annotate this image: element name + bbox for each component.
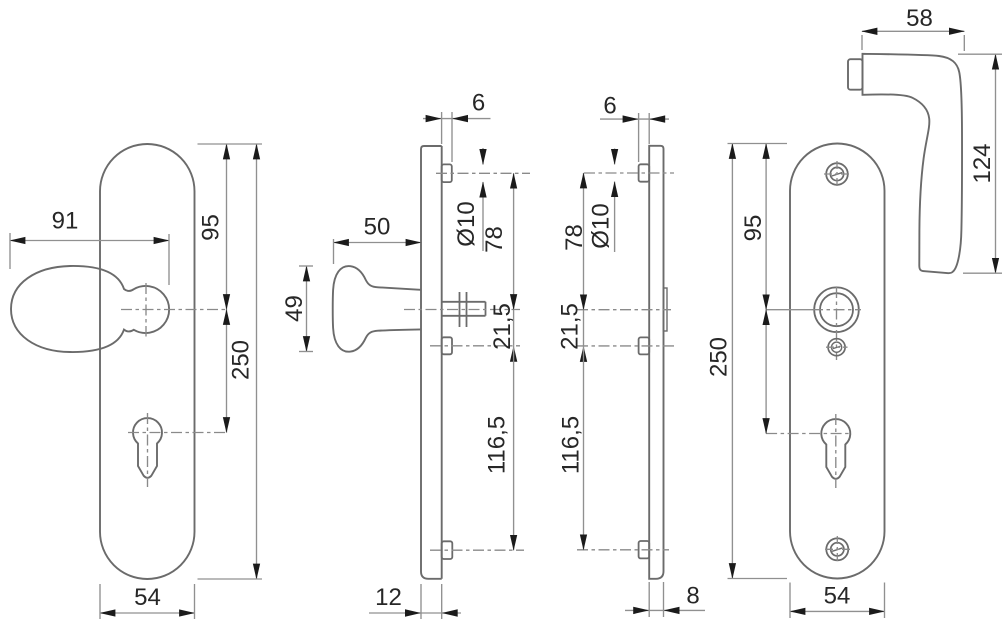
dimension 78 line	[513, 173, 515, 309]
spindle shaft	[442, 302, 486, 316]
keyhole horizontal centerline	[128, 432, 227, 434]
middle screw centerline	[430, 345, 520, 347]
dimension 12 arrow left	[405, 609, 421, 616]
bottom screw outer	[826, 538, 848, 560]
svg-text:21,5: 21,5	[557, 303, 584, 350]
svg-text:58: 58	[906, 5, 933, 32]
inner plate side profile (8mm)	[649, 146, 663, 579]
svg-text:12: 12	[375, 584, 402, 611]
dimension 21,5 arrow (shared with 116,5)	[580, 346, 587, 362]
plate outline (front view, lever side)	[790, 144, 885, 579]
dimension 49 extension line bottom	[299, 351, 313, 353]
dimension 91 extension line left	[9, 233, 11, 269]
svg-text:6: 6	[472, 90, 485, 117]
hub centerline extension to dimension	[766, 309, 812, 311]
dimension 6 extension line right	[648, 113, 650, 144]
top screw boss	[442, 164, 452, 182]
bottom screw horizontal centerline	[825, 548, 850, 550]
bottom extension line	[198, 578, 263, 580]
dimension 54 extension line right	[884, 583, 886, 619]
keyhole horizontal centerline	[766, 433, 851, 435]
dimension 124 extension line bottom	[963, 272, 1002, 274]
svg-text:91: 91	[52, 208, 79, 235]
svg-text:Ø10: Ø10	[588, 203, 615, 248]
svg-text:250: 250	[228, 340, 255, 380]
dimension 54 extension line left	[789, 583, 791, 619]
dimension 58 extension line right	[963, 35, 965, 51]
small screw inner	[832, 342, 842, 352]
diameter 10 upper arrow	[614, 149, 616, 165]
top extension line	[728, 143, 788, 145]
dimension 8 line	[625, 609, 705, 611]
dimension 8 arrow left	[633, 607, 649, 614]
bottom screw boss	[442, 541, 453, 559]
bottom extension line	[728, 578, 788, 580]
dimension 116,5 line	[513, 346, 515, 550]
lever handle outline	[863, 54, 963, 273]
keyhole (euro profile cylinder)	[133, 418, 162, 478]
bottom screw centerline	[430, 549, 524, 551]
top screw head inner	[830, 167, 843, 180]
svg-text:116,5: 116,5	[558, 416, 585, 474]
spindle guide bump	[664, 288, 668, 331]
middle screw boss	[442, 337, 452, 354]
handle hub outer circle	[814, 287, 859, 332]
top screw horizontal centerline	[824, 173, 850, 175]
top screw vertical centerline	[836, 161, 838, 187]
top screw slot	[832, 173, 842, 176]
spindle nut plate 2	[466, 292, 468, 327]
dimension 250 line	[256, 144, 258, 579]
middle screw boss	[639, 337, 650, 354]
dimension 12 arrow right	[442, 609, 458, 616]
dimension 6 line	[600, 118, 669, 120]
dimension 54 line	[100, 612, 195, 614]
svg-text:50: 50	[364, 214, 391, 241]
bottom screw vertical centerline	[836, 536, 838, 563]
svg-text:95: 95	[198, 214, 225, 241]
knob side profile (mushroom)	[333, 266, 421, 352]
keyhole vertical centerline	[147, 413, 149, 487]
dimension 58 line	[862, 30, 964, 32]
diameter 10 lower arrow and shelf	[482, 182, 484, 251]
dimension 78 line	[583, 173, 585, 310]
svg-text:54: 54	[824, 583, 851, 610]
dimension 50 line	[334, 242, 422, 244]
dimension 54 extension line left	[99, 584, 101, 619]
dimension 6 arrow right	[649, 115, 665, 122]
top screw centerline	[584, 172, 674, 174]
svg-text:49: 49	[281, 295, 308, 322]
dimension 12 extension line right	[441, 584, 443, 619]
dimension 12 line	[369, 612, 461, 614]
svg-text:21,5: 21,5	[489, 303, 516, 350]
dimension 6 line (screw protrusion)	[423, 118, 491, 120]
top screw head outer	[826, 163, 848, 185]
svg-text:Ø10: Ø10	[453, 201, 480, 246]
dimension 21,5 line	[583, 310, 585, 346]
svg-text:116,5: 116,5	[484, 416, 511, 474]
plate side profile (12mm cap)	[421, 146, 442, 579]
dimension 8 arrow right	[664, 607, 680, 614]
svg-text:54: 54	[134, 584, 161, 611]
svg-text:6: 6	[603, 93, 616, 120]
spindle centerline	[404, 309, 520, 311]
dimension 6 extension line right	[451, 112, 453, 162]
dimension 12 extension line left	[420, 584, 422, 619]
plate outline (front view, knob side)	[100, 144, 195, 579]
chain dimension hub-to-keyhole line	[765, 310, 767, 434]
dimension 49 line	[306, 266, 308, 352]
bottom screw boss	[639, 541, 650, 558]
small screw slot	[833, 346, 841, 348]
handle spindle stub	[848, 59, 863, 89]
chain dimension knob-to-keyhole line	[226, 310, 228, 433]
dimension 21,5 arrow (shared with 116,5)	[510, 346, 517, 362]
dimension 95 line	[226, 144, 228, 310]
dimension 124 line	[995, 54, 997, 273]
svg-text:124: 124	[969, 143, 996, 183]
dimension 49 extension line top	[299, 265, 313, 267]
dimension 8 extension line left	[648, 582, 650, 617]
dimension 6 extension line left	[638, 113, 640, 162]
dimension 58 extension line left	[861, 35, 863, 50]
dimension 250 line	[731, 144, 733, 579]
svg-text:8: 8	[686, 583, 699, 610]
spindle centerline	[577, 309, 671, 311]
knob vertical centerline	[145, 283, 147, 337]
keyhole (euro profile cylinder)	[821, 419, 850, 479]
svg-text:95: 95	[740, 215, 767, 242]
keyhole vertical centerline	[835, 414, 837, 488]
hub horizontal centerline	[812, 309, 861, 311]
dimension 91 line	[10, 240, 169, 242]
top screw centerline	[436, 172, 530, 174]
svg-text:78: 78	[561, 224, 588, 251]
top screw boss	[639, 164, 650, 181]
bottom screw centerline	[577, 549, 669, 551]
bottom screw inner	[831, 543, 844, 556]
dimension 54 extension line right	[194, 584, 196, 619]
knob (egg shape with neck and round boss)	[11, 266, 169, 352]
dimension 91 extension line right	[168, 234, 170, 285]
dimension 116,5 line	[583, 346, 585, 550]
dimension 124 extension line top	[958, 53, 1002, 55]
dimension 8 extension line right	[663, 582, 665, 617]
small screw horizontal centerline	[826, 346, 848, 348]
middle screw centerline	[577, 345, 674, 347]
small screw outer	[828, 339, 845, 356]
plate face line	[441, 146, 443, 579]
dimension 54 line	[790, 610, 885, 612]
dimension 6 extension line left	[441, 112, 443, 144]
dimension 6 arrow right	[452, 115, 468, 122]
svg-text:78: 78	[481, 226, 508, 253]
dimension 21,5 line	[513, 310, 515, 346]
diameter 10 lower arrow and shelf	[614, 182, 616, 252]
bottom screw slot	[832, 548, 842, 551]
dimension 6 arrow left	[623, 115, 639, 122]
dimension 95 line	[765, 144, 767, 310]
diameter 10 upper arrow	[482, 148, 484, 164]
svg-text:250: 250	[706, 337, 733, 377]
knob horizontal centerline	[121, 309, 227, 311]
handle hub inner circle	[820, 293, 853, 326]
spindle nut plate 1	[459, 292, 461, 327]
dimension 50 extension line	[333, 239, 335, 264]
hub vertical centerline	[836, 287, 838, 360]
dimension 6 arrow left	[426, 115, 442, 122]
top extension line	[198, 143, 263, 145]
